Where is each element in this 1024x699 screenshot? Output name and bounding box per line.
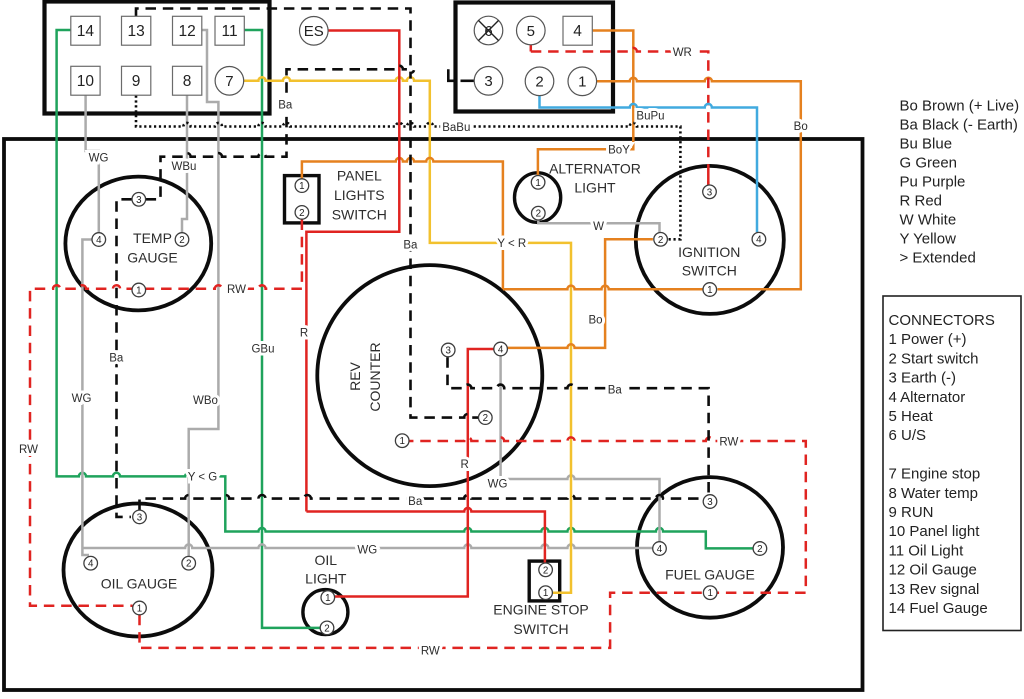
svg-text:3: 3 [137,512,143,523]
svg-text:2: 2 [324,623,329,634]
temp gauge pin 3 [132,193,146,207]
fuel gauge pin 1 [703,586,717,600]
wire Bo brown ignition pin2 to rev counter pin4 [507,239,653,348]
svg-text:5: 5 [527,23,535,40]
svg-text:BaBu: BaBu [442,122,470,134]
svg-text:Pu Purple: Pu Purple [900,174,966,191]
connector J1 pin 10 [71,66,100,95]
svg-text:2: 2 [535,74,543,91]
wire Ba black rev counter pin3 to fuel gauge pin3 [448,357,709,494]
svg-text:13: 13 [127,23,144,40]
svg-text:RW: RW [19,444,38,456]
svg-text:Bo: Bo [794,121,808,133]
svg-text:LIGHT: LIGHT [574,179,616,195]
connector J1 pin 9 [122,66,151,95]
svg-text:WBo: WBo [193,395,218,407]
svg-text:LIGHTS: LIGHTS [334,187,385,203]
wire GBu green J1-11 to oil light pin2 [244,30,320,628]
svg-text:Ba: Ba [403,240,418,252]
wire Ba black temp gauge pin3 to oil gauge pin3 [117,199,132,517]
svg-text:2: 2 [483,413,488,424]
svg-text:14: 14 [77,23,95,40]
rev counter pin 1 [395,434,409,448]
svg-text:Ba Black (- Earth): Ba Black (- Earth) [900,117,1018,134]
wire RW red/white run through temp gauge pin1 [30,285,302,606]
svg-text:1: 1 [707,588,712,599]
ignition switch pin 4 [752,232,766,246]
wire RW red/white panel switch pin2 drop [301,220,304,289]
engine stop switch pin 2 [539,563,553,577]
svg-text:Y < G: Y < G [188,472,218,484]
svg-text:1: 1 [707,285,712,296]
svg-text:4: 4 [96,235,102,246]
svg-text:> Extended: > Extended [900,250,976,267]
svg-text:Ba: Ba [278,99,293,111]
svg-text:8: 8 [183,73,192,90]
svg-text:10 Panel light: 10 Panel light [889,523,981,540]
svg-text:COUNTER: COUNTER [367,342,383,411]
svg-text:1: 1 [299,181,304,192]
svg-text:3: 3 [707,497,713,508]
panel lights switch box [285,176,320,223]
connector block J2 (engine connector, pins 1-6) [456,3,614,112]
svg-text:Bo Brown (+ Live): Bo Brown (+ Live) [900,98,1020,115]
svg-text:OIL: OIL [315,552,338,568]
svg-text:PANEL: PANEL [337,168,382,184]
connector J1 pin 8 [173,66,202,95]
svg-text:Bu Blue: Bu Blue [900,136,953,153]
svg-text:4: 4 [88,559,94,570]
svg-text:10: 10 [77,73,95,90]
svg-text:2: 2 [757,544,762,555]
svg-text:9 RUN: 9 RUN [889,504,934,521]
svg-text:TEMP: TEMP [133,230,172,246]
svg-text:ALTERNATOR: ALTERNATOR [549,160,641,176]
oil light pin 1 [321,591,335,605]
node L (live feed) [448,69,453,81]
wire WBu white/blue J1-8 to temp gauge pin2 [182,96,187,234]
engine stop switch pin 1 [539,586,553,600]
rev counter pin 3 [441,343,455,357]
svg-text:Y < R: Y < R [497,238,526,250]
svg-text:3: 3 [445,346,451,357]
wire L lead to J2-3 [461,80,475,83]
svg-text:1: 1 [578,74,586,91]
temp gauge outline [65,177,211,311]
svg-text:RW: RW [227,284,246,296]
connector J1 pin 13 [122,16,151,45]
connector ES (engine stop feed) [300,17,329,46]
svg-text:1 Power (+): 1 Power (+) [889,331,967,348]
wire R red rev counter pin4 to oil light pin1 [335,349,494,597]
svg-text:4: 4 [657,544,663,555]
alternator light outline [515,173,561,223]
wire W white alternator light pin2 to ignition pin2 [538,220,659,233]
svg-text:12 Oil Gauge: 12 Oil Gauge [889,562,977,579]
svg-text:14 Fuel Gauge: 14 Fuel Gauge [889,600,988,617]
svg-text:1: 1 [136,286,141,297]
svg-text:3: 3 [484,73,492,90]
oil light pin 2 [320,621,334,635]
svg-text:CONNECTORS: CONNECTORS [889,312,995,329]
panel lights switch pin 2 [295,206,309,220]
alternator light pin 2 [532,206,546,220]
svg-text:4: 4 [573,23,582,40]
svg-text:ENGINE STOP: ENGINE STOP [493,602,588,618]
svg-text:R Red: R Red [900,193,943,210]
svg-text:GAUGE: GAUGE [127,249,178,265]
wire RW red/white oil gauge pin1 loop to rev counter pin1 [140,437,806,648]
rev counter pin 2 [479,411,493,425]
rev counter outline [317,265,542,486]
svg-text:SWITCH: SWITCH [513,621,568,637]
svg-text:REV: REV [347,361,363,390]
svg-text:Y Yellow: Y Yellow [900,231,957,248]
wire Ba black oil gauge pin3 to fuel gauge pin3 [140,495,704,510]
wire Y yellow J1-7 to engine stop switch pin1 [244,77,571,593]
svg-text:BoY: BoY [608,144,630,156]
connector J2 pin 3 [474,67,503,96]
svg-text:2: 2 [186,559,191,570]
svg-text:WG: WG [488,478,508,490]
wire WBo white/brown J1-12 to oil gauge pin2 [189,30,219,557]
wire BoY brown/yellow J2-4 to alternator light pin1 [538,31,633,177]
oil gauge pin 4 [84,556,98,570]
rev counter pin 4 [494,342,508,356]
svg-text:6 U/S: 6 U/S [889,427,927,444]
svg-text:G Green: G Green [900,155,958,172]
svg-text:6: 6 [484,23,492,40]
svg-text:1: 1 [137,604,142,615]
svg-text:1: 1 [543,588,548,599]
engine stop switch box [529,561,560,601]
svg-text:2: 2 [299,208,304,219]
wire WG white/green rev counter pin4 to fuel gauge pin4 [501,356,660,542]
svg-text:FUEL GAUGE: FUEL GAUGE [665,567,755,583]
svg-text:GBu: GBu [251,343,274,355]
svg-text:3: 3 [707,187,713,198]
svg-text:1: 1 [535,178,540,189]
fuel gauge pin 4 [653,542,667,556]
wire WR white/red entry into ignition pin3 [707,175,710,185]
fuel gauge outline [637,477,783,618]
svg-text:5 Heat: 5 Heat [889,408,934,425]
svg-text:2: 2 [658,235,663,246]
svg-text:3 Earth (-): 3 Earth (-) [889,370,957,387]
connector J2 pin 6 (unused, crossed out) [474,16,503,45]
svg-text:RW: RW [719,436,738,448]
legend: connectors list [889,312,995,617]
svg-text:1: 1 [399,436,404,447]
svg-text:4 Alternator: 4 Alternator [889,389,966,406]
svg-text:WG: WG [357,544,377,556]
svg-text:2: 2 [536,209,541,220]
connector J2 pin 2 [525,67,554,96]
ignition switch outline [636,166,784,314]
wire R red junction run to engine stop switch pin2 [306,508,545,563]
connector J1 pin 7 [215,67,244,96]
panel lights switch pin 1 [295,179,309,193]
connector J1 pin 11 [215,16,244,45]
svg-text:7 Engine stop: 7 Engine stop [889,466,981,483]
connector block J1 (gauge loom connector, pins 7-14) [45,2,270,114]
svg-text:SWITCH: SWITCH [682,263,737,279]
main instrument panel frame [4,139,863,690]
wire WR white/red stub at J2-5 [530,45,533,52]
wire WG white/green J1-10 to temp gauge pin4 [86,96,99,235]
svg-text:4: 4 [498,345,504,356]
legend: wire colour key [900,98,1020,267]
temp gauge pin 1 [132,283,146,297]
wire Ba black temp gauge pin3 riser [146,66,407,200]
svg-text:WR: WR [673,47,692,59]
connector J1 pin 14 [71,16,100,45]
svg-text:OIL GAUGE: OIL GAUGE [101,575,178,591]
oil gauge outline [64,504,213,637]
oil gauge pin 3 [133,510,147,524]
svg-text:9: 9 [132,73,141,90]
svg-text:IGNITION: IGNITION [678,244,740,260]
svg-text:13 Rev signal: 13 Rev signal [889,581,980,598]
svg-text:Ba: Ba [608,385,623,397]
svg-text:R: R [300,327,308,339]
oil light outline [303,590,348,635]
wire Bo brown panel lights switch pin1 to ignition pin1 [302,158,503,289]
svg-text:11: 11 [222,23,238,40]
ignition switch pin 2 [654,233,668,247]
connector J1 pin 12 [173,16,202,45]
wire R red ES to junction [306,31,399,512]
ignition switch pin 3 [703,185,717,199]
connector J2 pin 1 [568,67,597,96]
svg-text:SWITCH: SWITCH [332,207,387,223]
svg-text:WG: WG [89,153,109,165]
wire WG white/green temp pin4 to oil gauge pin4 [82,240,91,556]
svg-text:11 Oil Light: 11 Oil Light [889,542,965,559]
svg-text:2: 2 [179,235,184,246]
svg-text:RW: RW [421,646,440,658]
wire Bo brown J2-1 to ignition switch pin1 [597,78,801,290]
svg-text:12: 12 [178,23,195,40]
oil gauge pin 2 [182,556,196,570]
svg-text:Ba: Ba [408,496,423,508]
svg-text:BuPu: BuPu [636,111,664,123]
connector J2 pin 5 [517,16,546,45]
ignition switch pin 1 [703,283,717,297]
svg-text:8 Water temp: 8 Water temp [889,485,978,502]
svg-text:2: 2 [543,565,548,576]
svg-text:LIGHT: LIGHT [305,570,347,586]
connectors legend box [883,296,1021,631]
svg-text:1: 1 [325,593,330,604]
connector J2 pin 4 [563,16,592,45]
oil gauge pin 1 [133,601,147,615]
svg-text:3: 3 [136,195,142,206]
wire BuPu blue/purple J2-2 to ignition pin4 [540,96,758,232]
svg-text:R: R [460,459,468,471]
wire WR white/red J2-5 to ignition pin3 [531,48,709,185]
svg-text:ES: ES [304,23,324,40]
fuel gauge pin 3 [703,495,717,509]
svg-text:WG: WG [72,393,92,405]
temp gauge pin 4 [92,233,106,247]
svg-text:Ba: Ba [109,353,124,365]
svg-text:4: 4 [756,235,762,246]
alternator light pin 1 [531,176,545,190]
svg-text:W White: W White [900,212,957,229]
temp gauge pin 2 [175,233,189,247]
wire G green J1-14 to fuel gauge pin2 [57,30,753,548]
fuel gauge pin 2 [753,542,767,556]
svg-text:WBu: WBu [172,161,197,173]
wire WG white/green oil gauge run to fuel gauge pin4 [82,544,652,548]
wire BaBu black/blue J1-9 to ignition pin2 [136,96,680,240]
svg-text:2 Start switch: 2 Start switch [889,350,979,367]
svg-text:Bo: Bo [588,315,602,327]
svg-text:W: W [593,221,604,233]
wire Ba black J1-13 to rev counter pin2 [136,9,479,418]
svg-text:7: 7 [225,73,233,90]
